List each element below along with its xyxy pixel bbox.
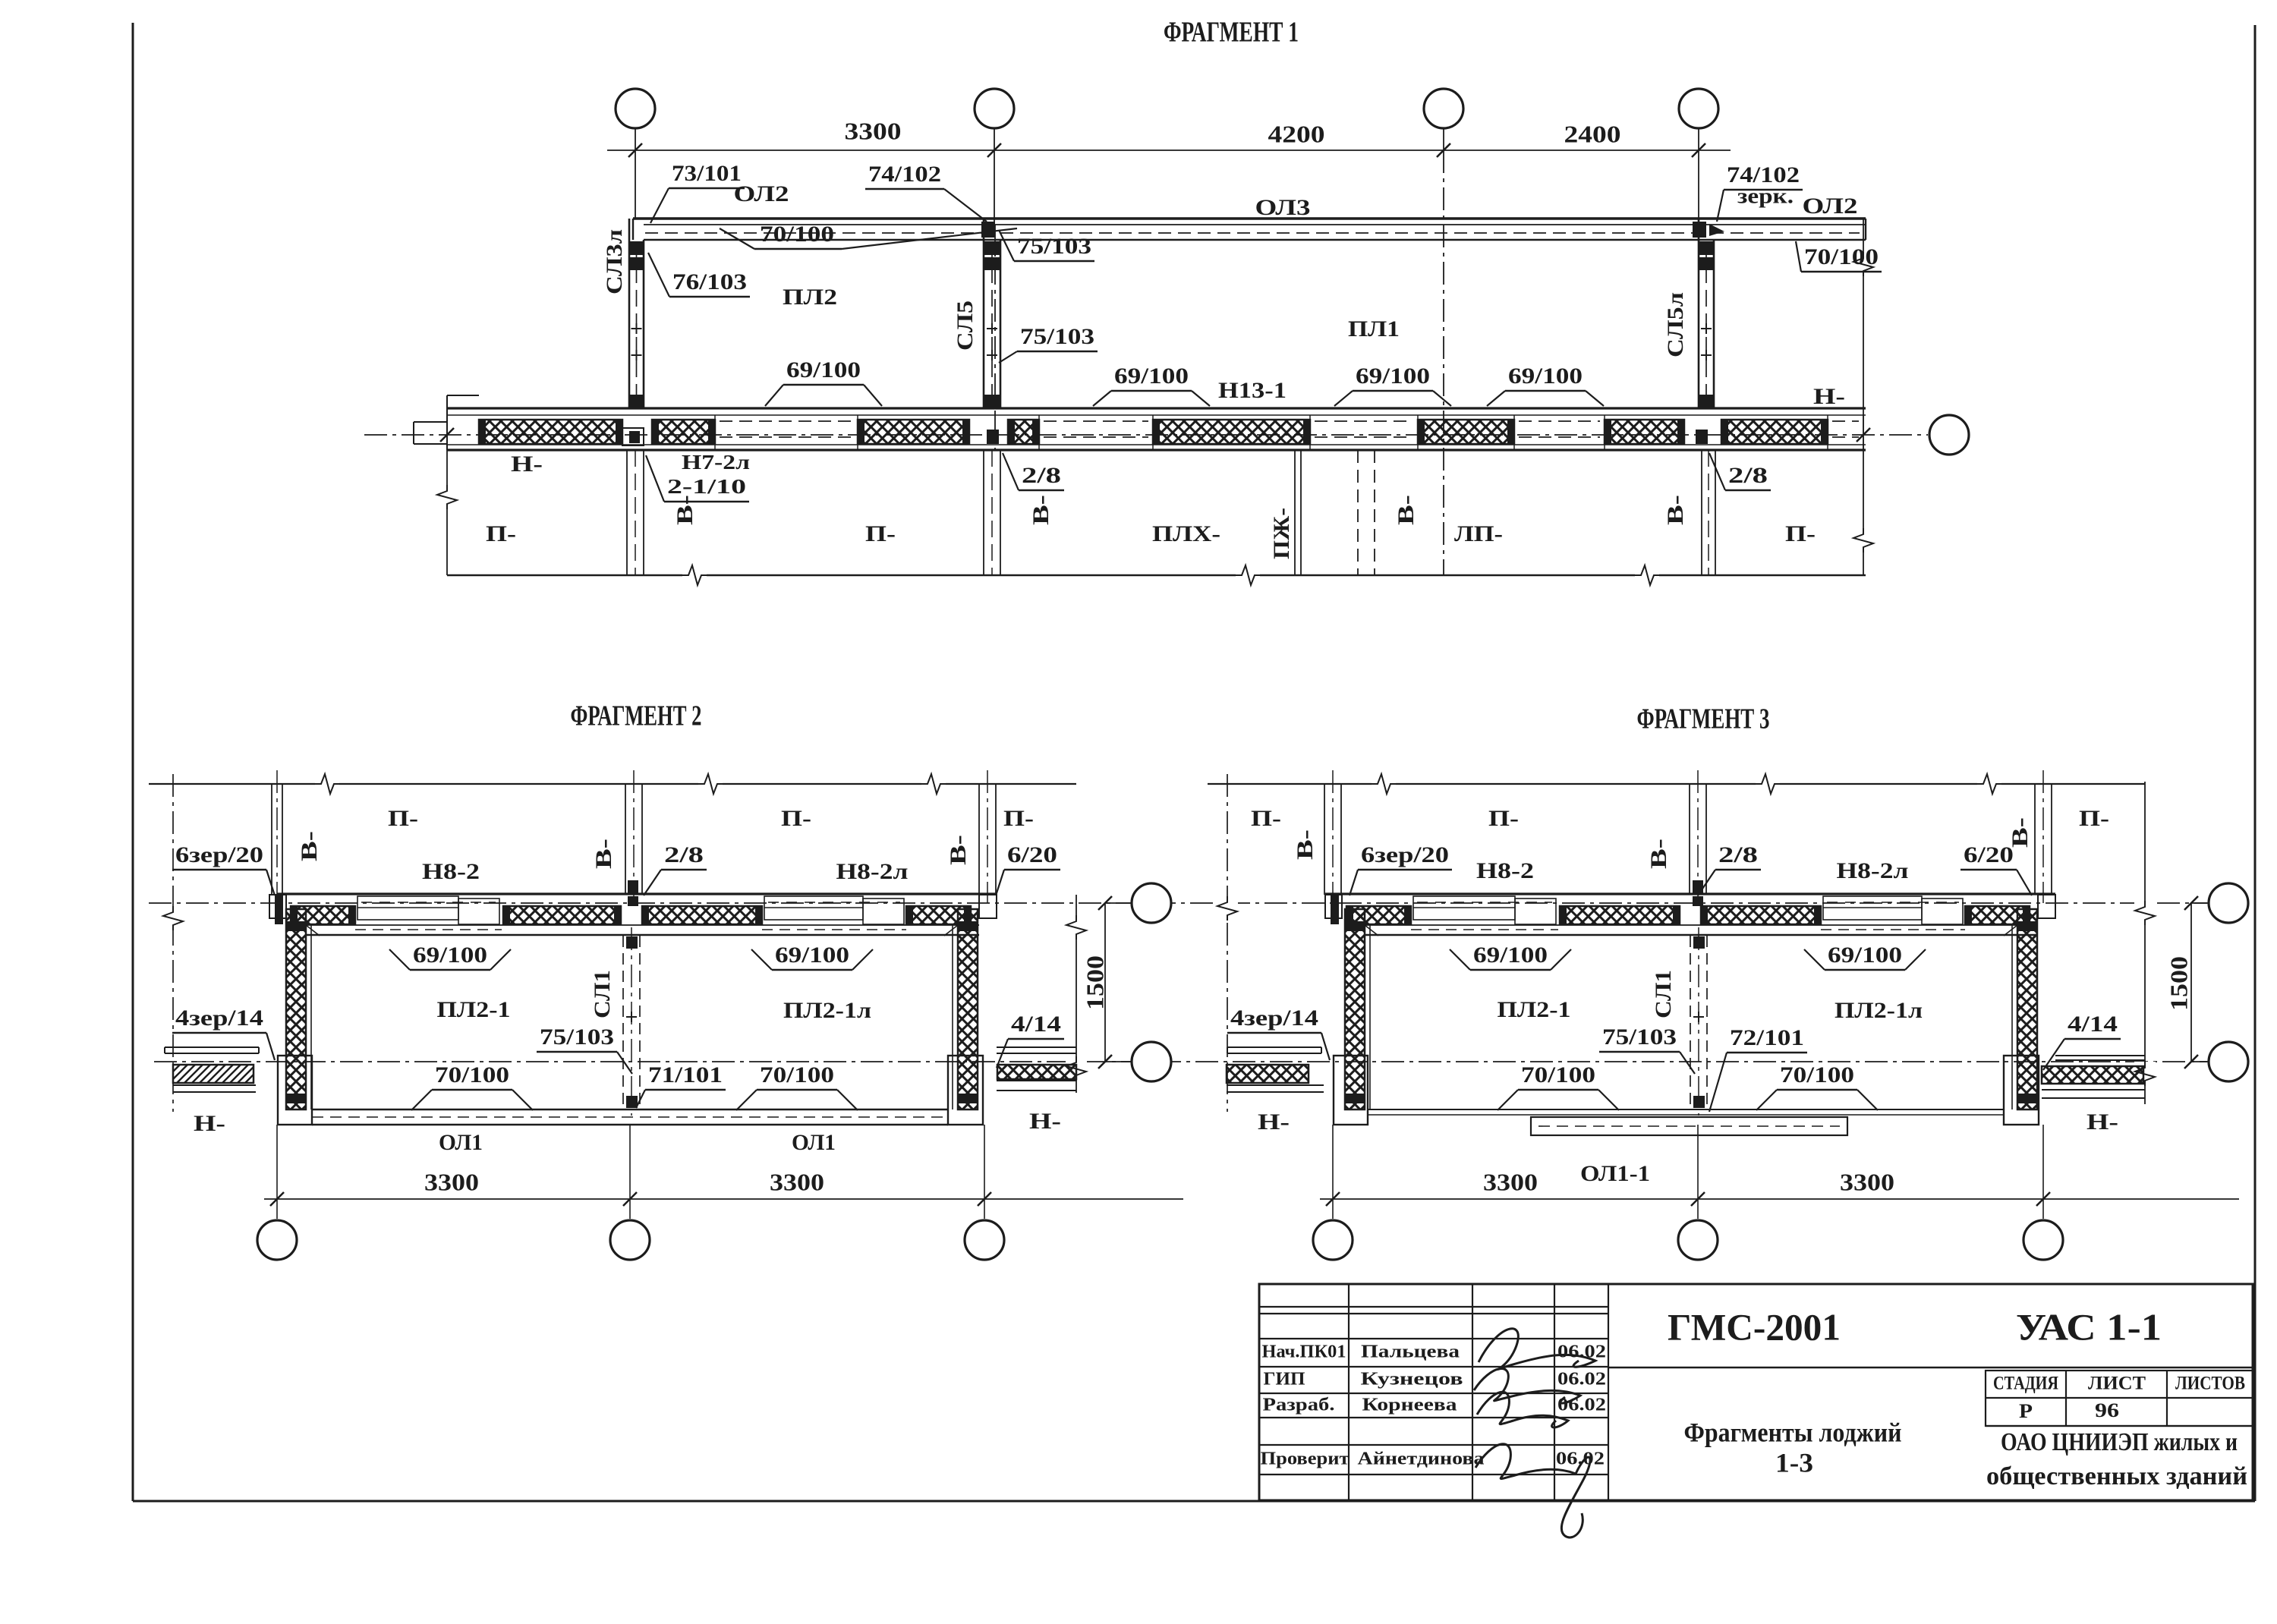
svg-text:75/103: 75/103 <box>1602 1024 1677 1050</box>
joint blob at axis 4 mirrored <box>1693 222 1706 238</box>
svg-text:П-: П- <box>388 806 418 831</box>
loggia wall NR3-1 F3 <box>2017 909 2037 1109</box>
svg-text:В-: В- <box>1663 495 1688 525</box>
svg-text:Н8-2: Н8-2 <box>422 859 480 884</box>
svg-text:75/103: 75/103 <box>1017 234 1091 259</box>
svg-text:В-: В- <box>672 495 698 525</box>
svg-text:70/100: 70/100 <box>435 1062 509 1087</box>
svg-text:Н7-2л: Н7-2л <box>682 451 750 474</box>
svg-text:ПЖ-: ПЖ- <box>1269 508 1294 559</box>
svg-text:В-: В- <box>591 839 616 869</box>
wall V4 below band <box>1701 450 1702 575</box>
svg-text:ОАО ЦНИИЭП жилых и: ОАО ЦНИИЭП жилых и <box>2001 1428 2238 1456</box>
svg-text:ПЛ2-1л: ПЛ2-1л <box>1835 998 1923 1023</box>
svg-text:73/101: 73/101 <box>672 161 742 186</box>
svg-text:2400: 2400 <box>1564 120 1621 147</box>
wall SL5l right line <box>1713 240 1715 408</box>
facade axis dash-dot <box>364 434 1928 436</box>
window opening 1995-2114 dashes <box>1519 420 1600 422</box>
svg-text:ФРАГМЕНТ 2: ФРАГМЕНТ 2 <box>571 700 702 732</box>
svg-text:74/102: 74/102 <box>868 162 941 187</box>
right boundary line F2 <box>1076 895 1077 1093</box>
left neighbour slab F3 <box>1227 1046 1321 1048</box>
window opening 942-1130 dashes <box>720 420 853 422</box>
slab band second line <box>644 224 1866 225</box>
svg-text:76/103: 76/103 <box>672 269 747 294</box>
corner post bottom-right F3 <box>2004 1056 2039 1125</box>
lower band inner bottom line <box>447 444 1866 445</box>
axis circle F2 b2 <box>610 1220 650 1260</box>
axis line A2 centerline <box>994 150 995 225</box>
wall SL5l center dashed <box>1705 243 1707 408</box>
wall V-right F2 <box>978 784 980 895</box>
band hatch F2 1194-1279 <box>906 906 971 924</box>
band hatch F3 1774-1859 <box>1346 906 1411 924</box>
band hatch F2 383-468 <box>291 906 355 924</box>
svg-text:3300: 3300 <box>1483 1168 1538 1195</box>
sheet left border <box>132 23 134 1501</box>
right neighbour slab F2 <box>997 1046 1076 1048</box>
band hatch F3 2055-2213 <box>1560 906 1680 924</box>
sheet bottom border <box>133 1500 2255 1503</box>
svg-text:06.02: 06.02 <box>1557 1370 1606 1390</box>
svg-text:Н-: Н- <box>1813 384 1845 409</box>
insulated wall panel hatch 2114-2219 <box>1605 420 1684 444</box>
svg-text:4200: 4200 <box>1268 120 1325 147</box>
wall PZh below band <box>1294 450 1296 575</box>
loggia bottom edge F3 <box>1368 1109 2004 1110</box>
wall SL1 F3 <box>1690 936 1691 1109</box>
wall V3 hidden below band <box>1357 450 1359 575</box>
band hatch F2 846-1004 <box>642 906 762 924</box>
svg-text:В-: В- <box>1394 495 1419 525</box>
axis circle F2 right top <box>1132 883 1171 923</box>
junction box B1 <box>622 428 644 445</box>
svg-text:69/100: 69/100 <box>786 357 861 382</box>
svg-text:4зер/14: 4зер/14 <box>1230 1006 1318 1031</box>
svg-text:ПЛ2-1л: ПЛ2-1л <box>783 998 871 1023</box>
band window F3 2399-2589 <box>1823 896 1922 920</box>
svg-text:П-: П- <box>1785 521 1816 546</box>
slab band right cap <box>1865 219 1866 240</box>
wall V-left F3 <box>1324 784 1325 895</box>
svg-text:75/103: 75/103 <box>540 1024 614 1050</box>
SL1 junction gap F3 <box>1693 896 1703 906</box>
axis line A4 <box>1698 150 1699 219</box>
band window F2 1004-1194 <box>764 896 863 920</box>
wall SL5l panel blocks <box>1699 241 1713 255</box>
black joint at mid wall bottom F3 <box>1693 880 1703 894</box>
svg-text:3300: 3300 <box>770 1168 824 1195</box>
wall V1 below band <box>626 450 628 575</box>
corner box left F2 <box>269 895 286 918</box>
svg-text:ПЛ2-1: ПЛ2-1 <box>437 997 511 1022</box>
insulated wall panel hatch 1519-1726 <box>1153 420 1310 444</box>
svg-text:В-: В- <box>2008 817 2033 848</box>
corner box left F3 <box>1325 895 1342 918</box>
right boundary line F3 <box>2144 782 2146 1104</box>
svg-text:ЛП-: ЛП- <box>1454 521 1503 546</box>
wall SL3l left line <box>628 219 631 408</box>
svg-text:Н13-1: Н13-1 <box>1218 378 1287 403</box>
SL1 junction gap F2 <box>628 896 638 906</box>
svg-text:УАС 1-1: УАС 1-1 <box>2016 1305 2162 1348</box>
svg-text:2/8: 2/8 <box>1728 463 1768 488</box>
svg-text:72/101: 72/101 <box>1730 1025 1804 1050</box>
svg-text:Разраб.: Разраб. <box>1263 1396 1335 1415</box>
svg-text:Р: Р <box>2019 1400 2033 1422</box>
svg-text:Н-: Н- <box>2086 1109 2118 1135</box>
svg-text:2-1/10: 2-1/10 <box>667 475 746 498</box>
band top line F2 <box>277 892 997 895</box>
signature 1 <box>1479 1329 1595 1369</box>
corner post bottom-left F3 <box>1334 1056 1368 1125</box>
svg-text:ФРАГМЕНТ 1: ФРАГМЕНТ 1 <box>1164 17 1299 49</box>
wall V2 center dash <box>991 450 993 575</box>
wall SL5l left line <box>1698 219 1700 408</box>
svg-text:Кузнецов: Кузнецов <box>1361 1370 1463 1390</box>
junction box B3 <box>1696 430 1708 444</box>
svg-text:06.02: 06.02 <box>1557 1342 1606 1362</box>
svg-text:Проверит: Проверит <box>1261 1449 1350 1469</box>
svg-text:В-: В- <box>1646 839 1671 869</box>
svg-text:П-: П- <box>1488 806 1519 831</box>
slab edge line F3 <box>1365 924 2038 926</box>
wall V-left F2 <box>271 784 272 895</box>
svg-text:Н8-2л: Н8-2л <box>836 859 909 884</box>
svg-text:Н-: Н- <box>511 452 543 477</box>
svg-text:69/100: 69/100 <box>413 943 487 968</box>
right neighbour hatch F3 <box>2042 1066 2143 1084</box>
svg-text:3300: 3300 <box>1840 1168 1894 1195</box>
svg-text:П-: П- <box>2079 806 2109 831</box>
axis stubs to circles F2 <box>276 1125 278 1219</box>
svg-text:69/100: 69/100 <box>1508 364 1583 389</box>
dim line bottom F2 <box>264 1198 1183 1200</box>
svg-text:Н-: Н- <box>1029 1109 1061 1134</box>
joint blob at axis 2 <box>981 222 995 238</box>
svg-text:1500: 1500 <box>1081 955 1108 1010</box>
svg-text:ОЛ1: ОЛ1 <box>792 1130 836 1155</box>
corner black left F2 <box>275 895 283 924</box>
svg-text:ФРАГМЕНТ 3: ФРАГМЕНТ 3 <box>1637 703 1770 735</box>
left band stub <box>414 421 447 423</box>
insulated wall panel hatch 1868-1995 <box>1418 420 1514 444</box>
svg-text:6зер/20: 6зер/20 <box>1361 842 1449 867</box>
axis circle F2 right bottom <box>1132 1042 1171 1081</box>
slab band dashed line <box>645 232 1860 234</box>
wall SL5 tie marks <box>987 328 997 329</box>
signature 2 <box>1474 1368 1580 1403</box>
svg-text:3300: 3300 <box>424 1168 479 1195</box>
corner box right F2 <box>979 895 997 918</box>
svg-text:ПЛ2-1: ПЛ2-1 <box>1498 997 1571 1022</box>
svg-text:1-3: 1-3 <box>1775 1447 1813 1478</box>
insulated wall panel hatch 631-820 <box>479 420 622 444</box>
axis circle F3 right bottom <box>2209 1042 2248 1081</box>
band window F3 1859-2053 <box>1413 896 1515 920</box>
svg-text:70/100: 70/100 <box>1521 1062 1595 1087</box>
svg-text:Н-: Н- <box>194 1111 225 1136</box>
svg-text:3300: 3300 <box>845 117 902 144</box>
loggia wall NR3-1l F3 <box>1345 909 1365 1109</box>
slab band left cap <box>632 219 634 240</box>
axis line A1 <box>635 150 636 219</box>
insulated wall panel hatch 859-942 <box>652 420 715 444</box>
svg-text:1500: 1500 <box>2165 956 2192 1011</box>
svg-text:Н-: Н- <box>1258 1109 1290 1135</box>
line under stage table <box>1986 1425 2253 1427</box>
axis circle F3 right top <box>2209 883 2248 923</box>
wall V2 below band <box>983 450 984 575</box>
svg-text:ГМС-2001: ГМС-2001 <box>1668 1305 1841 1348</box>
fragment 1 right edge <box>1863 219 1864 575</box>
left neighbour hatch F3 <box>1227 1065 1309 1083</box>
right neighbour slab F3 <box>2055 1055 2145 1056</box>
wall SL5 right line <box>1000 240 1002 408</box>
wall SL1 F2 <box>622 936 624 1109</box>
title block left table verticals <box>1348 1284 1350 1500</box>
svg-text:70/100: 70/100 <box>1780 1062 1854 1087</box>
axis circles fragment 1 <box>635 128 636 150</box>
slab band bottom line <box>644 239 1866 241</box>
wall SL5 center dashed <box>991 243 993 408</box>
svg-text:69/100: 69/100 <box>1356 364 1430 389</box>
lower band left cap <box>446 395 448 450</box>
band window F2 468-661 <box>357 896 458 920</box>
svg-text:69/100: 69/100 <box>1114 364 1189 389</box>
svg-text:Пальцева: Пальцева <box>1361 1342 1460 1362</box>
svg-text:ПЛ2: ПЛ2 <box>783 285 837 310</box>
svg-text:СЛ1: СЛ1 <box>1651 970 1676 1018</box>
window opening 2408-2455 dashes <box>1832 420 1859 422</box>
fragment 1 left edge <box>446 450 448 575</box>
fragment 1 bottom line <box>447 574 1866 576</box>
window opening 1726-1868 dashes <box>1315 420 1413 422</box>
wall SL3l right line <box>643 240 645 408</box>
junction box B2 <box>987 430 999 444</box>
svg-text:4/14: 4/14 <box>1011 1012 1061 1037</box>
corner post bottom-left F2 <box>278 1056 312 1125</box>
svg-text:74/102: 74/102 <box>1727 162 1800 187</box>
svg-text:ОЛ2: ОЛ2 <box>1803 194 1858 219</box>
svg-text:6зер/20: 6зер/20 <box>175 842 263 867</box>
svg-text:6/20: 6/20 <box>1964 842 2014 867</box>
svg-text:ЛИСТОВ: ЛИСТОВ <box>2175 1374 2245 1394</box>
dim line 1500 F3 <box>2190 903 2192 1062</box>
svg-text:П-: П- <box>1251 806 1281 831</box>
slab band OL2-OL3 top line <box>633 217 1866 219</box>
axis circle F2 b1 <box>257 1220 297 1260</box>
axis circle F3 b3 <box>2023 1220 2063 1260</box>
sheet right border <box>2254 25 2257 1501</box>
fragment 3 top break line <box>1208 783 2145 785</box>
svg-text:71/101: 71/101 <box>648 1062 723 1087</box>
wall SL3l panel blocks <box>630 241 643 255</box>
window opening 1369-1519 dashes <box>1044 420 1148 422</box>
band axis dash-dot F2-F3 <box>149 902 2207 904</box>
lower band second line <box>447 414 1866 416</box>
left axis line F3 <box>1227 774 1228 1112</box>
svg-text:Н8-2: Н8-2 <box>1476 858 1534 883</box>
svg-text:СЛ3л: СЛ3л <box>602 229 627 294</box>
corner black left F3 <box>1331 895 1339 924</box>
wall SL3l center dashed <box>636 243 638 408</box>
svg-text:69/100: 69/100 <box>775 943 849 968</box>
svg-text:70/100: 70/100 <box>1804 244 1879 269</box>
svg-text:СЛ5: СЛ5 <box>953 301 978 351</box>
svg-text:2/8: 2/8 <box>1718 842 1758 867</box>
lower band top line <box>447 407 1866 409</box>
svg-text:В-: В- <box>1293 829 1318 860</box>
insulated wall panel hatch 1130-1277 <box>858 420 969 444</box>
svg-text:СЛ1: СЛ1 <box>590 970 615 1018</box>
svg-text:общественных зданий: общественных зданий <box>1986 1462 2247 1490</box>
dimension line top <box>607 149 1731 151</box>
svg-text:ОЛ3: ОЛ3 <box>1255 195 1311 220</box>
svg-text:4зер/14: 4зер/14 <box>175 1006 263 1031</box>
svg-text:ПЛ1: ПЛ1 <box>1348 316 1400 341</box>
wall V-right F3 <box>2034 784 2036 895</box>
title block left table horizontals <box>1259 1306 1608 1308</box>
wall V-mid F2 <box>625 784 626 895</box>
wall SL3l tie marks <box>631 328 642 329</box>
left neighbour slab F2 <box>165 1046 259 1048</box>
wall SL5 panel blocks <box>984 241 1000 255</box>
svg-text:Нач.ПК01: Нач.ПК01 <box>1262 1342 1346 1362</box>
svg-text:В-: В- <box>1028 495 1053 525</box>
svg-text:Корнеева: Корнеева <box>1362 1396 1457 1415</box>
signature 3 <box>1477 1392 1568 1427</box>
svg-text:ОЛ2: ОЛ2 <box>734 181 789 206</box>
corner box right F3 <box>2038 895 2055 918</box>
loggia wall NR3-1 F2 <box>958 909 978 1109</box>
svg-text:Н8-2л: Н8-2л <box>1837 858 1909 883</box>
svg-text:ГИП: ГИП <box>1264 1370 1305 1390</box>
svg-text:2/8: 2/8 <box>1022 463 1061 488</box>
insulated wall panel hatch 2268-2408 <box>1721 420 1828 444</box>
black joint at mid wall bottom F2 <box>628 880 638 894</box>
svg-text:4/14: 4/14 <box>2068 1012 2118 1037</box>
lower band bottom line <box>447 448 1866 451</box>
band hatch F3 2241-2399 <box>1701 906 1821 924</box>
wall V1 center dash <box>635 450 636 575</box>
corner post bottom-right F2 <box>948 1056 983 1125</box>
title block divider line <box>1608 1367 2253 1369</box>
svg-text:В-: В- <box>297 831 322 861</box>
insulated wall panel hatch 1328-1369 <box>1008 420 1039 444</box>
svg-text:69/100: 69/100 <box>1828 943 1902 968</box>
svg-text:ОЛ1-1: ОЛ1-1 <box>1580 1161 1650 1186</box>
axis circle F2 b3 <box>965 1220 1004 1260</box>
wall V-mid F3 <box>1689 784 1690 895</box>
svg-text:П-: П- <box>1003 806 1034 831</box>
axis circle F3 b2 <box>1678 1220 1718 1260</box>
svg-text:70/100: 70/100 <box>760 222 834 247</box>
left neighbour hatch F2 <box>173 1065 254 1083</box>
svg-text:ОЛ1: ОЛ1 <box>439 1130 483 1155</box>
band hatch F3 2589-2674 <box>1965 906 2030 924</box>
dim line 1500 F2 <box>1104 903 1106 1062</box>
svg-text:Фрагменты лоджий: Фрагменты лоджий <box>1684 1417 1902 1447</box>
left axis line F2 <box>172 774 174 1112</box>
wall SL5l tie marks <box>1701 328 1712 329</box>
axis circle right <box>1929 415 1969 455</box>
wall SL5 left line <box>983 219 985 408</box>
svg-text:75/103: 75/103 <box>1020 324 1094 349</box>
svg-text:зерк.: зерк. <box>1737 184 1794 208</box>
svg-text:Айнетдинова: Айнетдинова <box>1358 1449 1485 1469</box>
svg-text:В-: В- <box>946 835 971 865</box>
fragment 2 top break line <box>149 783 1076 785</box>
lower centerline F2-F3 <box>154 1061 2207 1062</box>
svg-text:96: 96 <box>2095 1399 2119 1421</box>
axis line A3 centerline <box>1443 150 1444 574</box>
bottom slab OL1 F2 <box>312 1109 948 1110</box>
svg-text:70/100: 70/100 <box>760 1062 834 1087</box>
svg-text:ЛИСТ: ЛИСТ <box>2088 1374 2146 1394</box>
dim line bottom F3 <box>1320 1198 2239 1200</box>
svg-text:П-: П- <box>781 806 811 831</box>
axis stubs to circles F3 <box>1332 1125 1334 1219</box>
svg-text:2/8: 2/8 <box>664 842 704 867</box>
axis circle F3 b1 <box>1313 1220 1353 1260</box>
wall V4 center dash <box>1708 450 1709 575</box>
svg-text:П-: П- <box>865 521 896 546</box>
svg-text:П-: П- <box>486 521 516 546</box>
loggia wall NR3-1l F2 <box>286 909 306 1109</box>
svg-text:ПЛХ-: ПЛХ- <box>1152 521 1220 546</box>
svg-text:6/20: 6/20 <box>1007 842 1057 867</box>
slab OL1-1 F3 <box>1531 1117 1847 1135</box>
svg-text:СТАДИЯ: СТАДИЯ <box>1993 1374 2058 1394</box>
slab edge line F2 <box>306 924 979 926</box>
band hatch F2 663-818 <box>503 906 621 924</box>
signature 4 <box>1475 1444 1590 1537</box>
right neighbour hatch F2 <box>997 1065 1076 1079</box>
stage table box <box>1986 1371 2253 1426</box>
svg-text:СЛ5л: СЛ5л <box>1663 292 1688 357</box>
title block outer box <box>1259 1284 2253 1500</box>
band top line F3 <box>1325 892 2055 895</box>
svg-text:69/100: 69/100 <box>1473 943 1548 968</box>
